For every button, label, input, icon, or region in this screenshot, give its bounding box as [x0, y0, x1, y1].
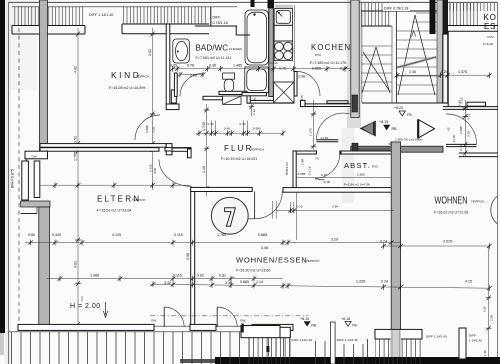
door leaf WE	[254, 192, 256, 219]
neighbor wall west of KO/ES	[447, 31, 449, 106]
dim line main y240	[25, 242, 400, 244]
bathtub BAD/WC	[245, 10, 269, 65]
svg-text:1.485: 1.485	[233, 64, 242, 68]
svg-text:F=26.02 m2 U=21.08: F=26.02 m2 U=21.08	[434, 211, 468, 215]
apartment number circle 7	[211, 197, 248, 234]
scan fold grey strip above kitchen-stair wall	[347, 0, 361, 128]
door leaf FLUR-landing	[316, 139, 338, 141]
svg-text:TS: TS	[315, 157, 319, 161]
door leaf BAD	[174, 73, 177, 96]
svg-text:0.82: 0.82	[197, 273, 204, 277]
door arc balcony door 2	[217, 307, 237, 327]
neighbor hatch above left stair flight	[361, 3, 391, 26]
svg-text:2.08: 2.08	[324, 180, 330, 184]
svg-text:0.60: 0.60	[483, 306, 487, 312]
top faint ledger line	[12, 6, 237, 8]
top border line	[9, 1, 498, 3]
svg-text:0.75: 0.75	[279, 67, 286, 71]
svg-text:BHB3 UV: BHB3 UV	[285, 161, 289, 175]
svg-text:F=16.08 m2 U=16.599: F=16.08 m2 U=16.599	[109, 86, 145, 90]
svg-text:2.08: 2.08	[190, 74, 197, 78]
wall ABST west	[293, 151, 296, 191]
svg-text:1.785: 1.785	[217, 233, 226, 237]
stair walk-line diagonals right flight	[398, 15, 415, 95]
svg-text:F=6.48: F=6.48	[483, 42, 493, 46]
svg-text:1.375: 1.375	[458, 70, 467, 74]
kitchen counter	[274, 25, 292, 41]
door arc balcony door 1	[164, 307, 184, 327]
duct box with diagonal (FLUR top)	[223, 96, 241, 104]
stove 4 burners	[274, 41, 292, 61]
dashed property line left	[18, 28, 20, 332]
wall KOCHEN south east part	[303, 104, 352, 107]
svg-text:4.105: 4.105	[112, 233, 121, 237]
toilet BAD/WC	[223, 73, 235, 79]
svg-text:DIFF: DIFF	[213, 16, 222, 20]
svg-text:0.115: 0.115	[270, 61, 278, 65]
svg-text:TEPPICH: TEPPICH	[136, 75, 149, 79]
svg-text:0.885: 0.885	[240, 280, 249, 284]
dim vline below ABST wall	[296, 192, 298, 240]
wall ABST south / WE north-east	[283, 188, 401, 193]
svg-text:3.515: 3.515	[443, 239, 452, 243]
svg-text:0.76: 0.76	[187, 64, 194, 68]
svg-text:0.76/1.18: 0.76/1.18	[213, 21, 228, 25]
svg-text:0.36: 0.36	[459, 144, 463, 150]
svg-text:1.088: 1.088	[90, 273, 99, 277]
svg-text:1.765: 1.765	[74, 152, 78, 161]
sill rect above corridor wall	[327, 101, 348, 104]
direction triangle left (filled)	[360, 121, 376, 137]
stair handrail grey diagonal	[397, 57, 436, 68]
svg-text:0.10: 0.10	[240, 122, 246, 126]
hatched wall block right of landing wall	[393, 142, 401, 152]
svg-text:25: 25	[253, 98, 257, 102]
dim line vertical x152.5 (3.61)	[152, 28, 154, 190]
FLUR north wall segment	[247, 100, 294, 103]
svg-text:FLIESEN: FLIESEN	[229, 47, 242, 51]
svg-text:H = 2.00: H = 2.00	[70, 303, 101, 310]
svg-text:TEPPICH: TEPPICH	[306, 259, 319, 263]
right border line	[496, 2, 498, 357]
dashed sill line bottom	[150, 315, 308, 317]
wall bottom WOHNEN segment	[375, 329, 422, 339]
door arc BAD/WC	[180, 73, 203, 96]
svg-text:GW: GW	[32, 154, 37, 158]
svg-text:GW: GW	[151, 319, 156, 323]
kitchen sink	[274, 9, 292, 26]
svg-text:2.26: 2.26	[490, 315, 494, 321]
svg-text:3.29: 3.29	[331, 237, 338, 241]
svg-text:0.115: 0.115	[173, 273, 182, 277]
door leaf balcony door 1	[163, 307, 165, 327]
svg-text:0.40: 0.40	[224, 127, 230, 131]
dim line BAD/KOCHEN y68.8	[172, 68, 352, 70]
svg-text:0.345: 0.345	[52, 233, 61, 237]
stairwell middle wall	[395, 11, 397, 103]
landing south wall (dark)	[351, 146, 443, 152]
dim line stair y75	[397, 74, 490, 76]
svg-text:2.36: 2.36	[409, 70, 416, 74]
stair walk-line diagonals left flight	[362, 47, 376, 93]
svg-text:DIFF 1.14/1.40: DIFF 1.14/1.40	[426, 335, 447, 339]
FLUR mini dim group y133	[196, 132, 283, 134]
svg-text:1.51: 1.51	[74, 136, 78, 143]
svg-text:0.10: 0.10	[208, 122, 214, 126]
svg-text:F=15.53 m2 U=23.04: F=15.53 m2 U=23.04	[97, 209, 131, 213]
walkline arrow	[412, 31, 417, 37]
svg-text:41.40: 41.40	[321, 136, 329, 140]
balcony hatch bottom left	[9, 332, 255, 364]
svg-text:0.10: 0.10	[252, 109, 256, 115]
svg-text:2.94: 2.94	[332, 205, 338, 209]
svg-text:1.14: 1.14	[256, 280, 263, 284]
svg-text:BAD/WC: BAD/WC	[196, 44, 229, 53]
svg-text:0.655: 0.655	[298, 172, 306, 176]
svg-text:PVC: PVC	[315, 53, 322, 57]
mini dim 0.10 / 2.94 below wall	[272, 201, 274, 219]
dim line y283.6	[150, 284, 490, 288]
shaft box with X (KOCHEN south-west)	[274, 82, 295, 103]
svg-text:0.665: 0.665	[253, 127, 261, 131]
svg-text:F=7.081 m2 U=11.411: F=7.081 m2 U=11.411	[196, 56, 232, 60]
wall ABST north	[293, 151, 317, 154]
svg-text:FB: FB	[352, 323, 357, 327]
stair bottom edge	[362, 102, 443, 104]
wall below toilet (BAD south)	[219, 91, 247, 94]
svg-text:4.15: 4.15	[465, 280, 472, 284]
svg-text:FB: FB	[407, 113, 412, 117]
washbasin BAD/WC	[173, 39, 190, 63]
dim line vertical x206.5	[206, 104, 208, 196]
black scan bar left edge	[0, 0, 5, 333]
svg-text:F=2.84 m2 U=7.08: F=2.84 m2 U=7.08	[344, 183, 370, 187]
svg-text:+8.18: +8.18	[341, 317, 350, 321]
svg-text:1.985 OK.L=2.080m: 1.985 OK.L=2.080m	[395, 138, 423, 142]
shower south wall	[242, 93, 267, 96]
curtain arc WOHNEN right	[491, 196, 498, 224]
svg-text:0.50: 0.50	[28, 233, 35, 237]
direction triangle right (open)	[418, 120, 434, 139]
svg-text:RB: RB	[311, 323, 317, 327]
wall jog below KIND east	[166, 104, 179, 110]
svg-text:PVC: PVC	[488, 35, 495, 39]
svg-text:0.81: 0.81	[219, 273, 226, 277]
balcony parapet band top-left	[12, 25, 85, 27]
svg-text:ES: ES	[484, 22, 496, 31]
svg-text:1.745: 1.745	[202, 122, 206, 131]
dim line vertical x313 (corridor)	[313, 100, 315, 150]
door arc WE	[255, 191, 283, 218]
svg-text:0.10: 0.10	[297, 205, 303, 209]
wall FLUR/WE south	[191, 187, 253, 191]
svg-text:1.88: 1.88	[301, 159, 305, 165]
window sill rect above landing	[467, 102, 486, 106]
svg-text:3.08: 3.08	[261, 246, 268, 250]
svg-text:TEPPICH: TEPPICH	[251, 148, 264, 152]
svg-text:ABST.: ABST.	[344, 161, 371, 170]
wall bottom ELTERN/WE south	[18, 324, 154, 330]
svg-text:0.655: 0.655	[312, 67, 321, 71]
svg-text:0.985: 0.985	[459, 126, 463, 134]
wall stub at jog	[166, 144, 172, 155]
svg-text:WOHNEN/ESSEN: WOHNEN/ESSEN	[236, 256, 307, 265]
svg-text:3.26: 3.26	[467, 131, 471, 137]
svg-text:0.10: 0.10	[460, 97, 464, 103]
svg-text:DIFF 1.14/1.40: DIFF 1.14/1.40	[337, 338, 358, 342]
door WOHNEN leaf lines	[446, 143, 477, 145]
wall WE/ELTERN divider	[191, 192, 195, 327]
svg-text:1.10: 1.10	[202, 166, 206, 173]
dim stub x251.5	[251, 103, 253, 116]
landing high window wall	[443, 106, 498, 108]
svg-text:3.08: 3.08	[153, 168, 157, 174]
dim line y185 across ELTERN	[38, 184, 191, 186]
svg-text:0.24: 0.24	[380, 239, 387, 243]
svg-text:DIFF 1.14/1.40: DIFF 1.14/1.40	[89, 13, 113, 17]
scan shading left margin	[5, 0, 11, 364]
svg-text:0.24: 0.24	[381, 280, 388, 284]
svg-text:1.50: 1.50	[483, 350, 487, 356]
wall KIND/ELTERN lower band	[165, 148, 191, 151]
svg-text:0.985: 0.985	[145, 125, 149, 133]
door arc FLUR-landing	[316, 113, 349, 140]
wall KOCHEN east (grey strip with edges)	[351, 0, 359, 118]
svg-text:0.11: 0.11	[467, 113, 471, 119]
svg-text:4.62: 4.62	[74, 66, 78, 73]
svg-text:3.61: 3.61	[148, 49, 152, 56]
kitchen unit front line	[294, 5, 296, 92]
wall stub down to door	[188, 149, 192, 158]
svg-text:F=26.30 m2 U=23.50: F=26.30 m2 U=23.50	[236, 269, 270, 273]
svg-text:PVC: PVC	[372, 165, 379, 169]
svg-text:KOCHEN: KOCHEN	[311, 43, 351, 52]
svg-text:0.885: 0.885	[258, 233, 267, 237]
svg-text:3.30: 3.30	[164, 281, 171, 285]
svg-text:KO: KO	[484, 13, 497, 22]
parapet band top-middle	[122, 23, 209, 25]
door arc ELTERN	[159, 160, 192, 187]
window niche BAD/WC top	[210, 7, 212, 26]
svg-text:BRH=0.875: BRH=0.875	[11, 169, 15, 188]
wall WOHNEN north	[459, 152, 498, 154]
window assembly bottom middle	[245, 338, 290, 364]
svg-text:0.10: 0.10	[321, 173, 327, 177]
svg-text:F=10.39 m2 U=16.021: F=10.39 m2 U=16.021	[221, 157, 257, 161]
left border line	[8, 2, 10, 364]
exterior wall grey ELTERN west	[39, 207, 50, 326]
balcony door sill left gap	[154, 325, 190, 327]
door leaf KOCHEN	[294, 72, 297, 97]
wall ELTERN north right segment	[172, 148, 191, 151]
svg-text:0.115: 0.115	[174, 233, 183, 237]
svg-text:3.73: 3.73	[291, 48, 295, 54]
svg-text:+8.10: +8.10	[300, 317, 309, 321]
balcony hatch top-left	[12, 7, 85, 26]
neighbor unit hatch top right	[448, 3, 497, 11]
wall jog at shower corner	[247, 93, 250, 104]
stairwell east wall grey	[437, 0, 443, 103]
stair treads left flight	[361, 46, 392, 91]
svg-text:DIFF 1.14/1.40: DIFF 1.14/1.40	[292, 338, 313, 342]
svg-text:GW: GW	[240, 319, 245, 323]
door arc WOHNEN	[446, 114, 476, 144]
black wall bars top right	[430, 0, 436, 34]
svg-text:2 x 16: 2 x 16	[308, 166, 312, 175]
balcony hatch top-middle	[122, 7, 208, 24]
dim line vertical x78 (4.62)	[77, 28, 79, 330]
svg-text:0.36: 0.36	[209, 64, 216, 68]
dim line vertical right x488	[488, 246, 490, 357]
wall grey divider WE/WOHNEN	[391, 142, 400, 330]
svg-text:2.08: 2.08	[298, 75, 305, 79]
svg-text:WOHNEN: WOHNEN	[435, 195, 468, 207]
corridor wall FLUR/KOCHEN corner	[301, 100, 306, 106]
svg-text:+8.15: +8.15	[379, 120, 388, 124]
label DIFF 0.78/1.18 stair	[383, 3, 410, 11]
svg-text:0.115: 0.115	[149, 164, 153, 172]
svg-text:0.24: 0.24	[340, 67, 347, 71]
door arc KIND	[135, 115, 160, 140]
dim line WOHNEN y246	[383, 245, 490, 247]
balcony hatch bottom right B	[375, 339, 422, 364]
scan fold grey strip lower right	[390, 330, 401, 360]
svg-text:3.98: 3.98	[186, 253, 190, 260]
arrow down	[105, 302, 107, 315]
svg-text:4.61: 4.61	[74, 261, 78, 268]
svg-text:TEPPICH: TEPPICH	[471, 200, 484, 204]
kitchen counter tick hatch	[276, 5, 292, 9]
svg-text:TEPPICH: TEPPICH	[132, 198, 145, 202]
svg-text:0.24: 0.24	[441, 70, 448, 74]
neighbor parapet band	[448, 25, 498, 27]
door arc KOCHEN	[297, 72, 320, 97]
wall KIND/ELTERN	[40, 144, 166, 148]
svg-text:F=7.385 m2 U=11.175: F=7.385 m2 U=11.175	[310, 61, 346, 65]
svg-text:41.40: 41.40	[452, 134, 456, 142]
dark wall block above landing door	[352, 95, 358, 112]
wall KIND east (BAD/WC west)	[166, 24, 170, 104]
window right wall bottom	[459, 328, 466, 359]
door leaf KIND/BAD jamb	[171, 90, 176, 103]
svg-text:1.14/1.40: 1.14/1.40	[469, 339, 482, 343]
svg-text:0.35: 0.35	[170, 64, 177, 68]
shower tray BAD/WC	[245, 67, 269, 93]
svg-text:1.375: 1.375	[309, 128, 313, 136]
balcony hatch bottom right A	[336, 344, 366, 364]
svg-text:DIFF 0.78/1.18: DIFF 0.78/1.18	[384, 7, 408, 11]
exterior wall step GW (left)	[25, 151, 48, 159]
door arc ABST	[315, 154, 340, 179]
svg-text:1.555: 1.555	[357, 173, 365, 177]
wall right of BAD door	[203, 96, 223, 100]
svg-text:1.335: 1.335	[356, 280, 365, 284]
door leaf balcony door 2	[216, 307, 218, 327]
dim line vertical x465 (stair/wohnen)	[464, 100, 466, 157]
svg-text:42: 42	[447, 127, 451, 131]
svg-text:RB: RB	[392, 127, 398, 131]
exterior wall grey left (KIND west wall)	[40, 0, 48, 151]
stair treads right flight	[397, 13, 438, 94]
svg-text:FLUR: FLUR	[224, 144, 253, 153]
svg-text:2.08: 2.08	[152, 127, 156, 133]
dark wall block below landing door	[352, 143, 358, 152]
window west ELTERN	[25, 159, 27, 205]
wall BAD/KOCHEN (dark)	[251, 0, 255, 7]
black scan bar bottom	[215, 357, 500, 364]
svg-text:DIFF: DIFF	[469, 334, 476, 338]
svg-text:+8.20: +8.20	[394, 106, 403, 110]
svg-text:3.30: 3.30	[225, 281, 232, 285]
wall step back	[21, 201, 50, 207]
